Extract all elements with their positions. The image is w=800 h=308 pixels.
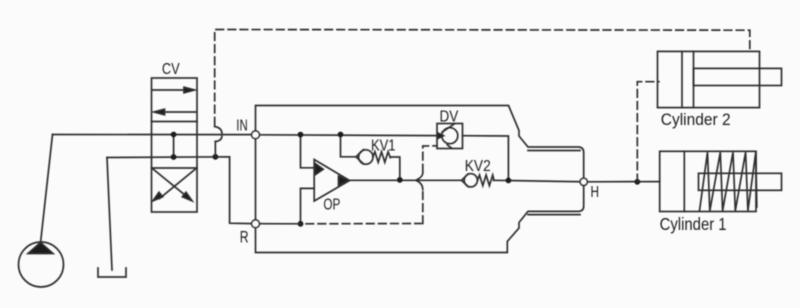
junction dot DV-KV2 line <box>506 178 512 184</box>
svg-text:R: R <box>240 228 249 246</box>
node H <box>580 178 587 185</box>
pump P <box>19 242 64 287</box>
cylinder 1 spring <box>700 152 757 211</box>
pilot hop over IN line <box>215 127 222 133</box>
valve CV arrow right <box>152 87 195 93</box>
wire pump to IN line (vertical) <box>41 135 53 244</box>
svg-text:IN: IN <box>236 118 247 135</box>
junction dot R-OP <box>298 221 304 227</box>
check valve KV2 <box>462 174 495 187</box>
junction dot H-cyl2 pilot <box>634 179 640 185</box>
pilot line R to DV (dashed) <box>306 146 437 224</box>
cylinder 2 body <box>658 51 782 107</box>
svg-text:KV1: KV1 <box>371 138 396 155</box>
pilot line cyl2 (dashed) <box>637 82 659 182</box>
svg-text:CV: CV <box>162 61 180 78</box>
junction dot pilot-tank <box>213 154 219 160</box>
valve CV body <box>152 78 198 212</box>
wire IN main line left segment <box>53 134 252 136</box>
svg-text:Cylinder 2: Cylinder 2 <box>661 110 731 129</box>
block outline top inner line <box>528 150 580 152</box>
wire OP output to H <box>350 179 462 181</box>
pilot solid tail to junction <box>214 142 216 157</box>
check valve DV <box>437 124 463 149</box>
wire H to cylinder 1 <box>587 181 659 183</box>
wire IN main line to DV <box>259 134 437 137</box>
tank T <box>98 268 126 277</box>
wire R solid segment <box>259 223 300 225</box>
junction dot KV1-OP output <box>397 177 403 183</box>
pilot line top (dashed) <box>215 30 750 126</box>
junction dot valve center bottom <box>171 154 177 160</box>
wire tank drop <box>107 158 112 271</box>
svg-text:KV2: KV2 <box>465 158 491 175</box>
junction dot valve center top <box>171 132 177 138</box>
block outline bottom inner line <box>528 214 580 216</box>
wire DV to corner <box>463 136 509 181</box>
node R <box>252 220 260 228</box>
svg-text:H: H <box>591 184 600 201</box>
wire OP lower input <box>301 188 315 223</box>
cylinder 1 body <box>660 151 782 211</box>
svg-text:Cylinder 1: Cylinder 1 <box>660 214 727 234</box>
op-amp OP <box>314 160 349 202</box>
wire tank line y157 <box>107 157 252 224</box>
valve CV crossed arrows <box>153 169 196 201</box>
pilot jog at OP output crossing <box>417 173 423 190</box>
junction dot IN-KV1 <box>338 132 344 138</box>
node IN <box>252 131 260 139</box>
check valve KV1 <box>341 135 400 180</box>
wire OP upper input <box>301 135 315 168</box>
valve CV internal link <box>173 135 175 158</box>
junction dot IN-OP <box>298 132 304 138</box>
block outline bottom <box>256 186 584 253</box>
valve CV arrow left <box>154 109 196 115</box>
block outline top <box>256 106 584 179</box>
block outline left edge mid <box>255 139 257 220</box>
svg-text:DV: DV <box>440 109 459 126</box>
svg-text:OP: OP <box>323 197 340 214</box>
